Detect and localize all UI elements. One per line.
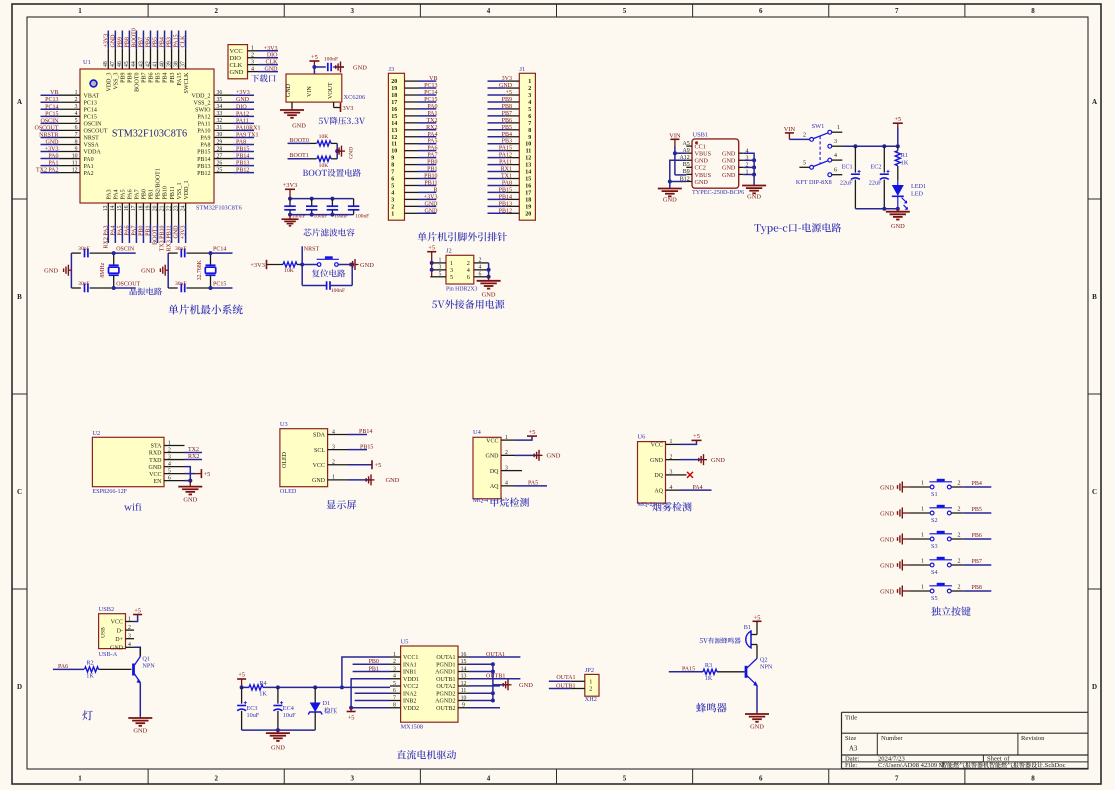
U1 pin 34 wire, net DIO [214, 104, 254, 110]
svg-text:14: 14 [110, 205, 116, 211]
ground at U5 [503, 679, 533, 690]
svg-text:4: 4 [75, 111, 78, 117]
svg-text:32: 32 [217, 118, 223, 124]
svg-text:17: 17 [391, 100, 397, 106]
svg-text:MX1508: MX1508 [401, 724, 423, 731]
J3 pin 13 wire, net RX2 [391, 125, 437, 134]
wire gnd to S1 [910, 480, 931, 487]
power +5 at VDD2 [347, 708, 356, 722]
transistor Q1 NPN [134, 647, 156, 683]
svg-text:EN: EN [154, 479, 163, 485]
wire U3 SCL net PB15 [348, 444, 373, 450]
U1 pin 25 wire, net PB12 [214, 167, 254, 173]
svg-text:12: 12 [461, 681, 467, 687]
svg-text:GND: GND [349, 147, 355, 159]
svg-text:100nF: 100nF [331, 288, 345, 294]
svg-text:U2: U2 [92, 430, 100, 437]
U1 pin 1 wire, net VB [41, 90, 81, 96]
crystal 32.768K [197, 253, 216, 288]
svg-text:1: 1 [393, 652, 396, 658]
svg-text:PA10: PA10 [197, 129, 210, 135]
wire OUTB2 [469, 707, 500, 709]
buzzer B1 [744, 624, 757, 648]
svg-text:2: 2 [168, 447, 171, 453]
wire U2 TXD net RX2 [185, 454, 203, 460]
svg-text:PA11: PA11 [198, 122, 211, 128]
svg-text:PC14: PC14 [424, 90, 437, 96]
wire gnd to S5 [910, 584, 931, 591]
wire USB2 GND to Q1 collector [134, 647, 140, 656]
svg-text:OUTA1: OUTA1 [436, 655, 455, 661]
svg-text:10: 10 [525, 142, 531, 148]
regulator U XC6206 [286, 74, 365, 108]
wire button to gnd [338, 263, 354, 267]
U1 pin 17 wire, net PA7 [131, 203, 137, 243]
svg-text:Size: Size [845, 735, 856, 742]
svg-text:CC1: CC1 [695, 144, 706, 151]
svg-text:8: 8 [1031, 7, 1035, 15]
svg-text:1: 1 [168, 440, 171, 446]
svg-text:18: 18 [138, 205, 144, 211]
svg-text:GND: GND [174, 225, 180, 239]
svg-text:19: 19 [525, 204, 531, 210]
caption smoke detection [652, 502, 691, 511]
svg-text:VSSA: VSSA [84, 143, 100, 149]
wire motor bottom rail [242, 728, 316, 732]
svg-text:PA15: PA15 [174, 34, 180, 47]
svg-text:7: 7 [528, 121, 531, 127]
svg-text:14: 14 [525, 170, 531, 176]
svg-text:2: 2 [391, 204, 394, 210]
svg-text:23: 23 [173, 205, 179, 211]
svg-text:22uF: 22uF [840, 179, 853, 186]
wire +5 to cap and VIN [312, 65, 325, 74]
svg-text:PB12: PB12 [499, 208, 512, 214]
svg-text:U3: U3 [280, 421, 288, 428]
svg-text:24: 24 [180, 205, 186, 211]
svg-text:VCC1: VCC1 [403, 655, 418, 661]
svg-text:OLED: OLED [280, 488, 297, 495]
driver U5 MX1508 [390, 639, 469, 731]
led LED1 [892, 181, 926, 210]
svg-text:+3V3: +3V3 [264, 46, 278, 52]
svg-text:TYPEC-250D-BCP6: TYPEC-250D-BCP6 [692, 189, 744, 196]
svg-text:2: 2 [803, 132, 806, 138]
wire AQ net PA4 [680, 485, 712, 491]
svg-text:INA2: INA2 [403, 691, 417, 697]
svg-text:4: 4 [332, 429, 335, 435]
transistor Q2 NPN [746, 657, 773, 687]
svg-text:LED: LED [911, 190, 924, 197]
U1 pin 37 wire, net CLK [180, 31, 186, 70]
caption buzzer [696, 703, 726, 713]
svg-text:RX2 PA3: RX2 PA3 [103, 226, 109, 249]
svg-text:7: 7 [895, 7, 899, 15]
U1 pin 23 wire, net GND [173, 203, 179, 243]
J3 pin 4 wire, net R [391, 187, 437, 196]
svg-text:8: 8 [391, 163, 394, 169]
svg-text:RX3 PB11: RX3 PB11 [167, 226, 173, 252]
wire INB1 net PB1 [353, 666, 390, 672]
svg-text:4: 4 [393, 674, 396, 680]
svg-text:SDA: SDA [313, 433, 326, 439]
J1 pin 17 wire, net PB15 [488, 187, 532, 196]
wire S2 to net PB5 [951, 506, 991, 513]
J3 pin 1 wire, net GND [391, 208, 438, 217]
svg-text:J1: J1 [520, 66, 526, 73]
switch SW1 KFT DIP-8X8 [796, 123, 843, 186]
svg-text:1: 1 [921, 558, 924, 564]
svg-text:PB7: PB7 [138, 37, 144, 47]
svg-text:Q1: Q1 [142, 656, 150, 663]
svg-text:5: 5 [623, 7, 627, 15]
capacitor 30pF bottom [168, 281, 210, 292]
svg-text:BOOT0: BOOT0 [131, 28, 137, 47]
svg-text:PB14: PB14 [197, 157, 210, 163]
ground at U6 [680, 454, 726, 465]
J1 pin 10 wire, net PB3 [488, 139, 532, 148]
svg-text:GND: GND [286, 83, 292, 97]
svg-text:PB7: PB7 [142, 73, 148, 83]
connector J3 header 20 [388, 66, 404, 220]
wire gnd to S4 [910, 558, 931, 565]
svg-text:PB4: PB4 [160, 37, 166, 47]
svg-text:PC15: PC15 [213, 281, 226, 287]
svg-text:6: 6 [479, 272, 482, 278]
wire S1 to net PB4 [951, 480, 991, 487]
svg-text:INB2: INB2 [403, 699, 416, 705]
J3 pin 8 wire, net PB0 [391, 160, 437, 169]
J3 pin 9 wire, net PA7 [391, 153, 437, 162]
ground at filter caps [282, 215, 299, 226]
wire J2 left common [430, 261, 434, 272]
svg-text:PC13: PC13 [424, 83, 437, 89]
svg-text:5: 5 [803, 160, 806, 166]
svg-text:6: 6 [391, 177, 394, 183]
svg-text:VOUT: VOUT [328, 82, 334, 99]
svg-text:PA2: PA2 [84, 171, 94, 177]
svg-text:USB2: USB2 [99, 606, 115, 613]
svg-text:+5: +5 [311, 54, 318, 61]
U1 pin 29 wire, net PA8 [214, 139, 254, 145]
svg-text:3: 3 [393, 666, 396, 672]
svg-text:35: 35 [217, 97, 223, 103]
svg-text:GND: GND [880, 510, 894, 517]
U1 pin 14 wire, net PA4 [110, 203, 116, 243]
svg-text:20: 20 [391, 79, 397, 85]
svg-text:4: 4 [128, 642, 131, 648]
svg-text:AGND1: AGND1 [435, 670, 455, 676]
svg-text:GND: GND [695, 158, 709, 165]
svg-text:3: 3 [670, 470, 673, 476]
svg-text:10K: 10K [284, 268, 294, 274]
J3 pin 12 wire, net PA4 [391, 132, 437, 141]
svg-text:PA0: PA0 [48, 154, 58, 160]
ground at U2 [178, 481, 202, 504]
svg-text:PA12: PA12 [499, 153, 512, 159]
title block file path cjk [941, 762, 1043, 768]
svg-text:EC2: EC2 [870, 164, 881, 171]
module U3 OLED [280, 421, 348, 495]
caption MCU minimum system [168, 304, 242, 314]
capacitor 100nF at regulator [324, 57, 344, 72]
svg-text:5: 5 [168, 468, 171, 474]
svg-text:of: of [1004, 755, 1010, 762]
svg-text:PA12: PA12 [197, 115, 210, 121]
caption lamp [82, 710, 92, 720]
svg-text:NRST: NRST [84, 136, 100, 142]
pushbutton S3 [929, 532, 952, 550]
pushbutton S1 [929, 480, 952, 498]
svg-text:VDD2: VDD2 [403, 706, 419, 712]
power +5 at J2 [427, 245, 436, 277]
pushbutton S5 [929, 584, 952, 602]
svg-text:VCC: VCC [486, 438, 498, 444]
svg-text:GND: GND [650, 458, 664, 464]
svg-text:Sheet: Sheet [987, 755, 1002, 762]
svg-text:2: 2 [958, 584, 961, 590]
svg-text:R2: R2 [86, 660, 93, 667]
svg-text:TX3 PB10: TX3 PB10 [160, 226, 166, 252]
U1 pin 40 wire, net PB4 [159, 31, 165, 70]
svg-text:8: 8 [393, 703, 396, 709]
svg-text:PC15: PC15 [45, 111, 58, 117]
svg-text:16: 16 [461, 652, 467, 658]
svg-text:2: 2 [958, 532, 961, 538]
svg-text:2: 2 [214, 7, 218, 15]
svg-text:CC2: CC2 [695, 165, 706, 172]
J3 pin 14 wire, net TX2 [391, 118, 437, 127]
svg-text:1K: 1K [705, 675, 713, 682]
svg-text:TX2: TX2 [427, 118, 438, 124]
svg-text:PB3: PB3 [167, 37, 173, 47]
capacitor 100nF reset [302, 265, 352, 294]
svg-text:GND: GND [499, 83, 513, 89]
svg-text:PA8: PA8 [502, 180, 512, 186]
J1 pin 20 wire, net PB12 [488, 208, 532, 217]
svg-text:18: 18 [391, 93, 397, 99]
power port VIN at SW1 [784, 126, 796, 140]
svg-text:NRST: NRST [304, 247, 320, 253]
svg-text:31: 31 [217, 125, 223, 131]
svg-text:4: 4 [528, 100, 531, 106]
svg-text:4: 4 [391, 190, 394, 196]
svg-text:PA1: PA1 [48, 161, 58, 167]
node PC15 [209, 281, 233, 290]
svg-text:PB15: PB15 [236, 147, 249, 153]
svg-text:2: 2 [393, 659, 396, 665]
power +3V3 at reset [250, 260, 266, 269]
svg-text:Q2: Q2 [760, 657, 768, 664]
caption MCU pin breakout header [418, 232, 507, 241]
svg-text:VDD1: VDD1 [403, 677, 419, 683]
svg-text:D: D [1092, 683, 1097, 691]
svg-text:PB7: PB7 [502, 111, 512, 117]
svg-text:OUTA1: OUTA1 [486, 652, 505, 658]
svg-text:U4: U4 [473, 429, 482, 436]
J1 pin 6 wire, net PB7 [488, 111, 532, 120]
svg-text:OUTB1: OUTB1 [486, 674, 505, 680]
svg-text:R4: R4 [259, 680, 266, 687]
svg-text:1: 1 [921, 532, 924, 538]
svg-text:PB8: PB8 [502, 104, 512, 110]
power +3V3 at filter caps [283, 182, 298, 199]
wire S3 to net PB6 [951, 532, 991, 539]
resistor R1 1K [895, 146, 909, 180]
svg-text:PA9 TX1: PA9 TX1 [236, 132, 259, 138]
svg-text:3: 3 [505, 465, 508, 471]
power port VIN at USB1 [669, 132, 681, 146]
wire gnd to S3 [910, 532, 931, 539]
svg-text:8: 8 [1031, 775, 1035, 783]
text active buzzer label [700, 637, 741, 643]
svg-text:B: B [17, 293, 22, 301]
svg-text:OSCIN: OSCIN [84, 122, 103, 128]
pushbutton reset [317, 258, 339, 267]
svg-text:+5: +5 [375, 462, 382, 469]
svg-text:16: 16 [124, 205, 130, 211]
svg-text:+3V3: +3V3 [424, 194, 438, 200]
svg-text:4: 4 [479, 265, 482, 271]
wire VDD1-VDD2 join [349, 679, 390, 710]
J1 pin 5 wire, net PB8 [488, 104, 532, 113]
U1 pin 5 wire, net OSCIN [40, 118, 80, 124]
svg-text:2: 2 [75, 97, 78, 103]
svg-text:PA7: PA7 [427, 153, 437, 159]
svg-text:PB0: PB0 [142, 189, 148, 199]
svg-text:PB6: PB6 [502, 118, 512, 124]
svg-text:12: 12 [391, 135, 397, 141]
svg-text:PB5: PB5 [502, 125, 512, 131]
svg-text:9: 9 [75, 146, 78, 152]
svg-text:STM32F103C8T6: STM32F103C8T6 [112, 129, 187, 140]
svg-text:VCC: VCC [313, 463, 325, 469]
svg-text:3: 3 [528, 93, 531, 99]
svg-text:PB15: PB15 [360, 444, 373, 450]
svg-text:PGND1: PGND1 [436, 662, 455, 668]
svg-text:KFT DIP-8X8: KFT DIP-8X8 [796, 179, 832, 186]
svg-text:GND: GND [722, 158, 736, 165]
svg-text:6: 6 [467, 274, 470, 281]
svg-text:S4: S4 [931, 569, 938, 576]
svg-text:+3V3: +3V3 [283, 182, 298, 189]
svg-text:1: 1 [128, 616, 131, 622]
svg-text:PA15: PA15 [682, 666, 695, 672]
svg-text:PB6: PB6 [972, 533, 982, 539]
svg-text:Number: Number [881, 735, 903, 742]
svg-text:ESP8266-12F: ESP8266-12F [92, 488, 127, 495]
wire reset node to button [302, 264, 317, 266]
svg-text:GND: GND [425, 208, 439, 214]
wire U2 RXD net TX2 [185, 447, 203, 453]
ground at crystal [44, 265, 71, 276]
svg-text:DQ: DQ [654, 473, 663, 479]
svg-text:USB: USB [101, 627, 107, 638]
svg-text:3: 3 [834, 139, 837, 145]
svg-text:PB13: PB13 [236, 161, 249, 167]
svg-text:PA11: PA11 [499, 160, 512, 166]
svg-text:VBUS: VBUS [695, 172, 712, 179]
U1 pin 45 wire, net PB8 [124, 31, 130, 70]
svg-text:1: 1 [837, 125, 840, 131]
svg-text:GND: GND [292, 123, 306, 130]
svg-text:3: 3 [128, 634, 131, 640]
svg-text:6: 6 [393, 688, 396, 694]
svg-text:11: 11 [391, 142, 397, 148]
svg-text:PA5: PA5 [528, 480, 538, 486]
ground at Q2 [745, 712, 769, 731]
svg-text:4: 4 [505, 481, 508, 487]
svg-text:3: 3 [450, 267, 453, 274]
svg-text:3: 3 [439, 265, 442, 271]
svg-text:PA7: PA7 [135, 189, 141, 199]
svg-text:GND: GND [425, 201, 439, 207]
svg-text:16: 16 [391, 107, 397, 113]
svg-text:AQ: AQ [654, 488, 663, 494]
svg-text:1: 1 [391, 211, 394, 217]
svg-text:S5: S5 [931, 595, 938, 602]
wire gnd bus right of U5 [469, 662, 508, 702]
svg-text:D1: D1 [323, 700, 331, 707]
mcu U1 STM32F103C8T6 [80, 59, 242, 212]
svg-text:GND: GND [230, 69, 244, 76]
svg-text:R1: R1 [901, 152, 908, 159]
svg-text:3: 3 [351, 775, 355, 783]
connector J2 HDR2X3 [430, 248, 488, 284]
svg-text:PB8: PB8 [128, 73, 134, 83]
capacitor 30pF top [71, 246, 113, 257]
svg-text:20: 20 [525, 211, 531, 217]
J3 pin 3 wire, net +3V3 [391, 194, 437, 203]
svg-text:33: 33 [217, 111, 223, 117]
svg-text:GND: GND [44, 267, 58, 274]
svg-text:VIN: VIN [784, 126, 796, 133]
svg-text:2: 2 [958, 480, 961, 486]
title block [842, 712, 1089, 769]
svg-text:10K: 10K [319, 134, 329, 140]
wire BOOT join [335, 143, 341, 158]
svg-text:PC14: PC14 [45, 104, 58, 110]
svg-text:5: 5 [393, 681, 396, 687]
U1 pin 2 wire, net PC13 [41, 97, 81, 103]
svg-text:PA3: PA3 [107, 189, 113, 199]
net label BOOT1 [288, 153, 311, 159]
svg-text:1: 1 [332, 475, 335, 481]
U1 pin 43 wire, net PB7 [138, 31, 144, 70]
svg-text:1K: 1K [259, 690, 267, 697]
J3 pin 19 wire, net PC13 [391, 83, 437, 92]
J3 pin 7 wire, net PB1 [391, 167, 437, 176]
caption crystal circuit [130, 287, 162, 295]
svg-text:PB3: PB3 [170, 73, 176, 83]
svg-text:SCL: SCL [314, 448, 325, 454]
power port 3V3 at VOUT [341, 103, 354, 112]
svg-text:40: 40 [159, 61, 165, 67]
resistor R3 1K [703, 662, 745, 682]
svg-text:15: 15 [525, 177, 531, 183]
svg-text:Pin HDR2X3: Pin HDR2X3 [446, 286, 478, 292]
capacitor 30pF top [168, 246, 210, 257]
svg-text:10: 10 [461, 695, 467, 701]
svg-text:100nF: 100nF [324, 57, 338, 63]
J3 pin 16 wire, net PA0 [391, 104, 437, 113]
U1 pin 11 wire, net PA1 [41, 160, 81, 166]
svg-text:J2: J2 [446, 248, 452, 255]
J1 pin 11 wire, net PA15 [488, 146, 532, 155]
svg-text:7: 7 [75, 132, 78, 138]
connector download port [228, 45, 278, 79]
svg-text:4: 4 [168, 461, 171, 467]
